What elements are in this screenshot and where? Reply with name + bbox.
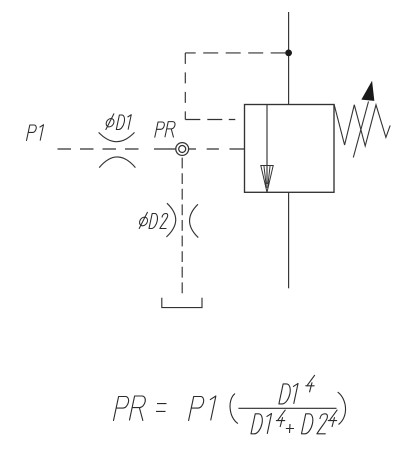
pilot line: horizontal dashed into valve left side upper — [185, 119, 244, 121]
label PR — [155, 122, 177, 138]
pilot line: vertical dashed segment at x=185 — [184, 53, 186, 120]
formula numerator: exponent 4 — [304, 375, 316, 392]
formula: equals sign — [156, 404, 167, 412]
wire: P1 main dashed line left — [58, 148, 147, 150]
spring (adjustable) right of valve — [334, 104, 390, 146]
node: junction dot on supply line — [286, 50, 292, 56]
flow arrow inside valve (hatched head) — [261, 166, 273, 193]
node PR: gauge point double circle — [176, 143, 189, 156]
pilot line: node to upper-left corner (dashed) — [185, 52, 285, 54]
tank / reservoir symbol — [162, 298, 202, 308]
formula denominator: exponent 4 — [275, 410, 287, 427]
formula denominator: D1 — [251, 414, 264, 434]
formula: open paren — [230, 394, 238, 424]
formula numerator: D1 — [279, 384, 292, 404]
label øD2 — [138, 212, 169, 228]
formula: fraction bar — [238, 407, 336, 409]
orifice D1 bottom arc — [99, 157, 135, 168]
orifice D2 right arc — [190, 204, 199, 237]
formula: close paren — [338, 392, 346, 424]
formula denominator: exponent 4 (second) — [327, 410, 339, 427]
orifice D2 left arc — [166, 203, 175, 237]
adjustment arrow head (filled) — [362, 82, 374, 100]
formula: P1 — [189, 397, 205, 421]
label øD1 — [105, 114, 131, 130]
valve body U1 (pressure relief valve box) — [245, 105, 335, 193]
wire: PR node to valve left side (dashed) — [189, 148, 245, 150]
adjustment arrow line through spring — [353, 102, 368, 158]
flow arrow inside valve (shaft) — [266, 105, 268, 185]
orifice D1 top arc — [99, 132, 135, 141]
wire: vertical dashed line below PR node — [181, 158, 183, 296]
wire: drain line below valve — [288, 192, 290, 288]
wire: supply line top — [288, 12, 290, 105]
formula: PR — [114, 397, 130, 421]
formula denominator: D2 — [302, 414, 315, 434]
wire: last dash joining PR node — [154, 148, 176, 150]
formula denominator: plus sign — [286, 424, 294, 433]
label P1 — [27, 125, 44, 141]
